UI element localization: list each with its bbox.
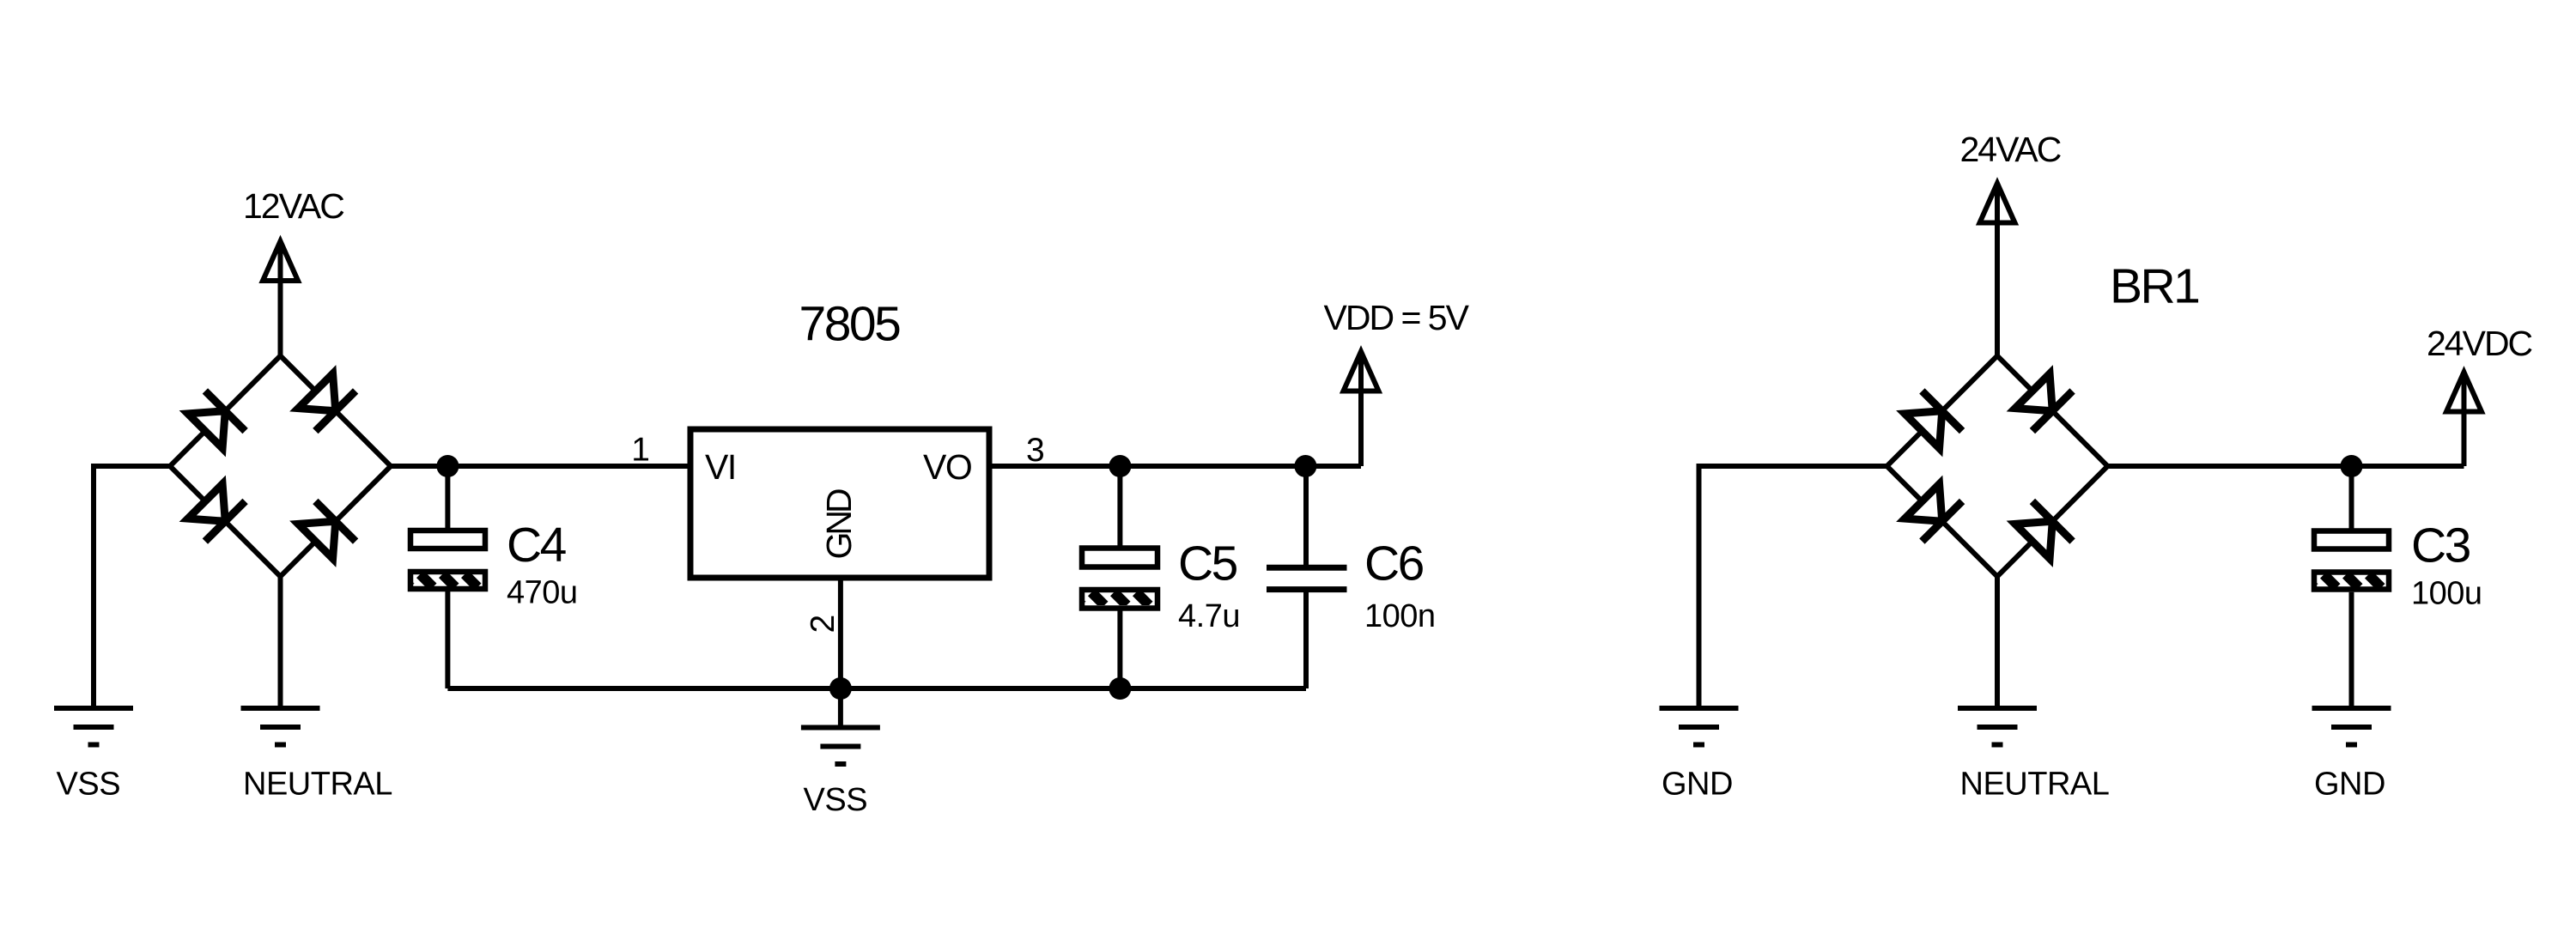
diode left bridge top-right	[295, 371, 355, 431]
diode BR1 bottom-right	[2013, 501, 2073, 561]
wire VO pin 3 rail to VDD corner	[989, 464, 1361, 469]
svg-text:24VAC: 24VAC	[1960, 130, 2062, 169]
net flag arrow 24VAC	[1980, 184, 2015, 356]
capacitor C6 plate top	[1267, 565, 1347, 571]
wire bridge left vertex to VSS ground	[94, 466, 170, 708]
voltage regulator U1 7805 box	[690, 429, 989, 578]
svg-text:NEUTRAL: NEUTRAL	[243, 767, 392, 803]
capacitor C4 bottom lead wire	[445, 591, 450, 688]
svg-text:VSS: VSS	[804, 782, 868, 818]
ground symbol NEUTRAL (left)	[241, 708, 320, 745]
capacitor C3 positive plate	[2314, 531, 2389, 549]
bridge rectifier BR1 diamond (right bridge)	[1887, 356, 2108, 577]
svg-text:470u: 470u	[507, 575, 578, 611]
bottom rail wire (VSS net)	[447, 686, 1306, 691]
svg-text:GND: GND	[2314, 767, 2385, 803]
wire bottom rail to VSS ground (center)	[838, 688, 843, 728]
svg-text:GND: GND	[1662, 767, 1733, 803]
wire bridge right vertex to 7805 VI pin 1	[391, 464, 690, 469]
wire bridge left vertex to GND ground (right circuit)	[1699, 466, 1887, 708]
svg-text:NEUTRAL: NEUTRAL	[1960, 767, 2110, 803]
diode left bridge bottom-right	[295, 501, 355, 561]
svg-text:24VDC: 24VDC	[2427, 324, 2533, 363]
diode BR1 bottom-left	[1902, 482, 1962, 542]
capacitor C4 positive plate	[410, 531, 485, 549]
capacitor C5 bottom lead wire	[1117, 611, 1122, 689]
capacitor C3 negative plate (hatched)	[2301, 573, 2403, 590]
ground symbol GND (left of right circuit)	[1660, 708, 1739, 745]
junction dot at C5 top node	[1109, 455, 1131, 477]
capacitor C3 top lead wire	[2349, 466, 2354, 531]
capacitor C5 top lead wire	[1117, 466, 1122, 549]
capacitor C6 plate bottom	[1267, 586, 1347, 592]
capacitor C4 top lead wire	[445, 466, 450, 531]
svg-text:7805: 7805	[799, 297, 901, 352]
svg-text:VDD = 5V: VDD = 5V	[1324, 298, 1470, 337]
junction dot pin2 at bottom rail	[829, 677, 852, 700]
svg-text:2: 2	[805, 615, 841, 634]
ground symbol NEUTRAL (right circuit)	[1958, 708, 2037, 745]
net flag arrow VDD	[1344, 352, 1379, 467]
svg-text:12VAC: 12VAC	[243, 186, 344, 226]
ground symbol GND (under C3)	[2312, 708, 2391, 745]
junction dot at C3 top node	[2341, 455, 2363, 477]
svg-text:VO: VO	[923, 447, 971, 487]
diode left bridge top-left	[185, 391, 246, 451]
capacitor C3 bottom lead wire	[2349, 592, 2354, 708]
ground symbol VSS (left)	[54, 708, 133, 745]
net flag arrow 12VAC	[263, 241, 298, 356]
wire bridge right vertex to 24VDC corner	[2108, 464, 2464, 469]
junction dot at C6 top node	[1294, 455, 1316, 477]
junction dot at C4 top node	[436, 455, 459, 477]
svg-text:100n: 100n	[1364, 598, 1436, 634]
svg-text:100u: 100u	[2411, 576, 2482, 612]
bridge rectifier diamond (left bridge)	[170, 356, 391, 577]
svg-text:C3: C3	[2411, 518, 2470, 573]
svg-text:VSS: VSS	[57, 767, 121, 803]
diode BR1 top-left	[1902, 391, 1962, 451]
svg-text:3: 3	[1026, 432, 1045, 469]
capacitor C5 negative plate (hatched)	[1069, 590, 1171, 609]
svg-text:BR1: BR1	[2110, 259, 2198, 314]
junction dot C5 at bottom rail	[1109, 677, 1131, 700]
svg-text:GND: GND	[819, 489, 859, 560]
svg-text:1: 1	[631, 432, 650, 469]
diode left bridge bottom-left	[185, 482, 246, 542]
svg-text:C4: C4	[507, 518, 567, 573]
svg-text:VI: VI	[705, 447, 736, 487]
svg-text:C6: C6	[1364, 537, 1424, 591]
capacitor C5 positive plate	[1082, 549, 1157, 567]
capacitor C6 top lead wire	[1303, 466, 1309, 567]
svg-text:C5: C5	[1178, 537, 1237, 591]
wire bridge bottom vertex to NEUTRAL ground (right circuit)	[1995, 577, 2000, 709]
ground symbol VSS (center)	[801, 728, 880, 765]
capacitor C6 bottom lead wire	[1303, 590, 1309, 688]
net flag arrow 24VDC	[2446, 373, 2482, 467]
diode BR1 top-right	[2013, 371, 2073, 431]
svg-text:4.7u: 4.7u	[1178, 598, 1240, 634]
pin 2 wire GND to bottom rail	[838, 578, 843, 688]
capacitor C4 negative plate (hatched)	[398, 572, 500, 589]
wire bridge bottom vertex to NEUTRAL ground	[278, 577, 283, 709]
